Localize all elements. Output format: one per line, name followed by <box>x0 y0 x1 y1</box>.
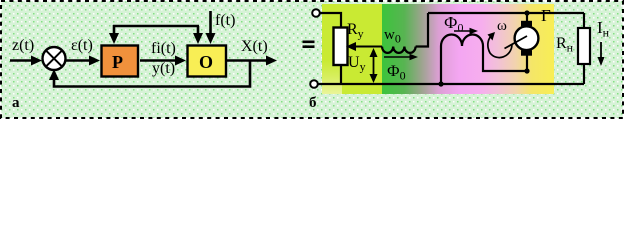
wire input arrow into summing junction <box>10 56 42 66</box>
wire omega rotation arrow <box>488 32 513 58</box>
node = (dc source) label <box>303 41 315 49</box>
dashed selection border <box>0 0 624 119</box>
svg-text:б: б <box>309 95 317 111</box>
wire Rn branch bottom <box>583 64 585 84</box>
block O (object) <box>188 46 227 77</box>
wire arrow down into P top <box>109 25 119 44</box>
wire bottom rail <box>318 83 584 85</box>
wire generator top lead <box>526 12 528 22</box>
wire arrow down into O top (from feedforward line) <box>193 26 203 44</box>
resistor Ry <box>334 28 348 66</box>
gradient colour band of panel b <box>382 4 554 94</box>
wire f(t) disturbance arrow into O top <box>206 11 216 44</box>
svg-text:а: а <box>12 95 20 111</box>
wire generator bottom lead <box>526 54 528 71</box>
wire feedback loop to summing junction <box>49 61 250 87</box>
svg-text:ε(t): ε(t) <box>71 37 93 54</box>
wire Ry bottom to rail <box>340 64 342 84</box>
svg-text:y(t): y(t) <box>152 60 175 77</box>
wire flux arrow F0 upper <box>454 28 478 34</box>
pale corner of chartreuse block <box>322 60 342 94</box>
junction dot on bottom rail <box>438 81 443 86</box>
svg-text:О: О <box>199 52 213 72</box>
generator G machine <box>505 21 539 56</box>
wire summing junction to P <box>66 56 100 66</box>
junction dot on top rail <box>524 10 529 15</box>
wire In current arrow <box>598 42 605 66</box>
terminal top <box>312 9 320 17</box>
terminal bottom <box>310 80 318 88</box>
dotted green background <box>0 0 624 119</box>
resistor Rn <box>578 28 590 64</box>
wire potentiometer wiper arrow <box>346 42 382 51</box>
inductor excitation coil <box>441 35 527 85</box>
svg-text:f(t): f(t) <box>215 12 235 29</box>
wire top left from terminal to Ry <box>320 13 341 27</box>
wire from w0 up to top rail <box>416 13 428 47</box>
wire top rail <box>428 12 584 14</box>
svg-text:Г: Г <box>541 6 551 25</box>
svg-text:ω: ω <box>497 18 507 34</box>
wire Rn branch top <box>583 13 585 28</box>
chartreuse block of panel b band <box>322 4 382 94</box>
block P (regulator) <box>102 46 139 77</box>
wire P to O <box>140 56 186 66</box>
wire feedforward line over P and O <box>113 25 199 28</box>
summing junction <box>43 47 66 70</box>
inductor w0 (control winding) <box>382 47 416 53</box>
wire Uy voltage double arrow <box>370 48 378 83</box>
junction dot at coil-generator corner <box>524 68 529 73</box>
svg-text:Р: Р <box>112 52 123 72</box>
wire output X(t) arrow <box>227 56 277 66</box>
svg-text:X(t): X(t) <box>241 38 268 55</box>
wire flux arrow F0 lower <box>384 54 418 60</box>
svg-text:z(t): z(t) <box>12 37 34 54</box>
svg-text:fi(t): fi(t) <box>151 40 176 57</box>
